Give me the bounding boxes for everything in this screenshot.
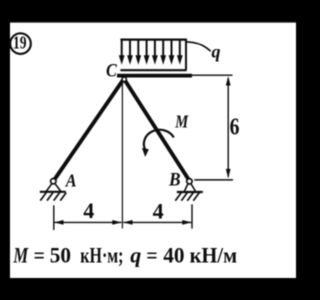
- svg-text:M: M: [13, 242, 30, 267]
- dim 6 vertical line: [227, 78, 229, 177]
- circled number 19: [10, 33, 31, 54]
- svg-text:B: B: [168, 170, 181, 191]
- ground line A: [40, 191, 66, 193]
- distributed load q box bottom line: [120, 69, 186, 71]
- support triangle A: [46, 183, 61, 191]
- load arrow 7: [169, 40, 175, 65]
- dim 6 down arrow: [226, 169, 231, 178]
- page top edge line: [10, 21, 296, 23]
- load arrow 2: [127, 40, 133, 65]
- svg-text:q: q: [212, 42, 221, 62]
- svg-text:40: 40: [163, 242, 184, 267]
- support triangle B: [185, 183, 196, 191]
- ground line B: [177, 191, 203, 193]
- load arrow 5: [152, 40, 158, 65]
- dim arrow right end: [182, 220, 191, 225]
- load arrow 3: [135, 40, 141, 65]
- bottom reference line for dim 6 (from B pin): [194, 179, 233, 181]
- svg-text:M: M: [174, 111, 189, 131]
- distributed load arrows (8): [119, 40, 183, 65]
- svg-text:50: 50: [50, 242, 71, 267]
- svg-text:q: q: [130, 242, 141, 267]
- moment arrowhead: [142, 148, 149, 157]
- beam C to right (top chord): [117, 74, 192, 78]
- svg-text:19: 19: [13, 33, 27, 53]
- load arrow 4: [144, 40, 150, 65]
- dim 6 up arrow: [226, 76, 231, 85]
- svg-text:4: 4: [153, 199, 164, 224]
- centre extension line from C: [121, 80, 123, 229]
- leader line to q label: [187, 42, 210, 51]
- hatching A: [40, 193, 66, 201]
- svg-text:=: =: [34, 242, 45, 267]
- member C-A: [54, 79, 124, 181]
- svg-text:6: 6: [230, 115, 240, 141]
- extension line below B: [191, 204, 193, 228]
- pin circle B: [187, 179, 192, 184]
- svg-text:=: =: [146, 242, 157, 267]
- pin circle A: [51, 179, 56, 184]
- caption: M = 50 kN*m; q = 40 kN/m: [13, 242, 237, 267]
- dimension line 4+4: [54, 221, 121, 223]
- distributed load q box top line: [120, 38, 186, 40]
- load arrow 1: [119, 40, 125, 65]
- svg-text:4: 4: [83, 198, 94, 223]
- hatching B: [175, 193, 199, 201]
- member C-B: [124, 79, 189, 181]
- svg-text:кН/м: кН/м: [190, 242, 238, 267]
- dim arrow left end: [54, 220, 63, 225]
- apex pin circle C: [122, 77, 126, 81]
- dim arrows at centre: [112, 220, 121, 225]
- thin top reference line for dim 6: [192, 74, 233, 76]
- distributed load q box right edge: [185, 39, 187, 70]
- svg-text:кН·м;: кН·м;: [80, 242, 123, 267]
- load arrow 6: [160, 40, 166, 65]
- svg-text:C: C: [106, 61, 117, 82]
- svg-text:A: A: [65, 170, 77, 190]
- extension line below A: [53, 205, 55, 230]
- white card: [10, 22, 296, 279]
- moment arc M: [144, 130, 174, 151]
- load arrow 8: [177, 40, 183, 65]
